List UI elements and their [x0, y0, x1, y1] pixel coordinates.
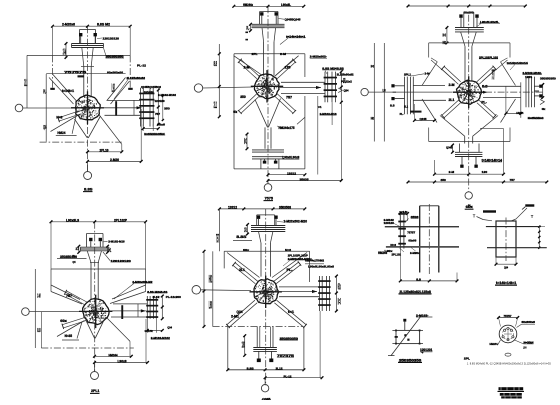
node JD5 upper-right leader text — [288, 259, 312, 261]
detail A column flanges — [419, 206, 421, 273]
svg-text:120120: 120120 — [155, 99, 165, 103]
node JD2 anchor bolts — [260, 12, 263, 15]
svg-text:HM244x: HM244x — [243, 3, 253, 7]
svg-text:N=35: N=35 — [65, 334, 73, 338]
svg-text:N=35kNN=3: N=35kNN=3 — [528, 116, 544, 120]
node JD5 top dimension line — [219, 208, 304, 210]
node JD5 bottom flange plates — [253, 347, 277, 349]
node JD4 left dim line — [34, 269, 36, 348]
svg-text:60x: 60x — [60, 319, 67, 323]
node JD1 vertical centerline — [87, 26, 89, 171]
node JD1 axis circle left — [15, 104, 23, 112]
node JD1 bottom dim 1 — [88, 151, 122, 153]
node JD1 end plates — [140, 88, 142, 127]
node JD4 flange plates — [80, 246, 109, 248]
svg-text:757575: 757575 — [277, 354, 294, 358]
svg-text:HM244: HM244 — [490, 342, 498, 346]
node JD5 gusset taper right — [272, 253, 307, 278]
detail B right dim — [538, 227, 540, 248]
svg-text:350350350: 350350350 — [540, 76, 556, 80]
svg-text:2L1: 2L1 — [24, 78, 27, 89]
node JD4 anchor bolt right — [99, 238, 102, 241]
node JD5 bottom axis circle — [261, 385, 268, 392]
node JD3 reentrant TR — [501, 62, 516, 86]
node JD3 left member — [413, 84, 445, 86]
node JD3 right bolt dim — [542, 85, 544, 98]
node JD2 hub — [254, 74, 279, 99]
node JD5 shoulder dashdot — [213, 326, 304, 328]
svg-text:3503: 3503 — [411, 215, 419, 219]
svg-text:2-M: 2-M — [37, 293, 40, 299]
node JD3 bottom dim 2 — [408, 181, 547, 183]
node JD3 bottom leader text — [482, 161, 502, 163]
node JD3 horizontal axis — [368, 91, 452, 93]
node JD5 column taper — [259, 232, 262, 244]
svg-text:Q345: Q345 — [446, 146, 453, 150]
svg-text:8.8S M248.8S: 8.8S M248.8S — [147, 290, 167, 294]
svg-text:Q345BQ345: Q345BQ345 — [285, 18, 301, 22]
svg-text:757575: 757575 — [64, 71, 86, 75]
svg-text:L90: L90 — [209, 300, 212, 312]
node JD5 right plate bolts — [318, 280, 330, 282]
detail C top leader — [416, 316, 432, 318]
detail B bottom dim — [495, 257, 497, 264]
node JD4 right member weld bar — [121, 305, 123, 319]
node JD1 anchor bolt left — [79, 33, 82, 36]
node JD3 bottom narrow column — [464, 136, 466, 143]
node JD5 right member centerline — [278, 291, 317, 293]
node JD3 bottom flange dim left — [452, 145, 454, 152]
svg-text:2-M162-M16: 2-M162-M16 — [108, 240, 125, 244]
svg-text:HM2: HM2 — [371, 116, 374, 121]
svg-text:N=3: N=3 — [244, 137, 247, 146]
node JD5 hub — [254, 279, 279, 304]
svg-text:HM244: HM244 — [109, 353, 118, 357]
node JD4 lower column — [90, 263, 92, 301]
detail C corner welds — [395, 330, 397, 332]
svg-text:t=14t=: t=14t= — [144, 90, 154, 94]
node JD5 flange plates — [251, 225, 285, 227]
svg-text:PL-: PL- — [43, 90, 46, 96]
node JD4 SW long diagonal — [57, 321, 85, 337]
detail D center marks — [504, 333, 512, 335]
svg-text:120120120: 120120120 — [103, 37, 120, 41]
node JD2 axis circle left — [194, 84, 202, 92]
svg-text:L90x8L: L90x8L — [281, 3, 291, 7]
node JD4 bottom axis circle — [91, 372, 99, 380]
node JD3 top dimension line — [408, 5, 525, 7]
node JD4 vertical centerline — [94, 222, 96, 372]
svg-text:2L1: 2L1 — [76, 246, 79, 251]
node JD4 right member — [113, 303, 147, 305]
node JD3 left member plates — [404, 77, 406, 115]
node JD5 brace lower-left — [227, 300, 255, 325]
node JD1 plate bolts — [139, 93, 154, 95]
svg-text:2PL: 2PL — [252, 52, 258, 56]
node JD2 outline chamfer — [297, 117, 305, 124]
node JD4 plate dim right — [161, 296, 163, 319]
svg-text:35035: 35035 — [300, 177, 309, 181]
svg-text:2-M: 2-M — [425, 72, 430, 76]
detail B column rect — [496, 221, 516, 257]
node JD1 plate dim right — [157, 90, 159, 124]
svg-text:8.8S: 8.8S — [84, 187, 93, 191]
node JD4 left leader text — [57, 257, 87, 259]
svg-text:60x: 60x — [243, 248, 249, 252]
node JD1 V right — [88, 116, 100, 138]
node JD1 anchor bolt right — [94, 33, 97, 36]
svg-text:8.8: 8.8 — [390, 103, 395, 107]
node JD1 brace lower-left — [58, 111, 79, 118]
svg-text:120120: 120120 — [384, 221, 395, 225]
svg-text:2PL1: 2PL1 — [404, 73, 411, 77]
node JD5 right end plates — [318, 276, 320, 311]
node JD1 left dim line x=46 — [45, 74, 47, 141]
svg-text:757: 757 — [66, 294, 72, 298]
detail B weld flag right — [525, 204, 534, 206]
detail D pipe circle — [499, 325, 517, 343]
svg-text:2PL: 2PL — [244, 227, 247, 234]
node JD2 bottom column — [264, 127, 266, 148]
node JD1 lower column — [83, 67, 85, 97]
svg-text:75757: 75757 — [504, 314, 512, 318]
node JD3 right arm lower dim — [506, 112, 521, 114]
node JD2 top leader texts — [279, 18, 285, 21]
node JD5 axis circle left — [192, 286, 201, 295]
title block line1 — [499, 387, 524, 390]
svg-text:Q34: Q34 — [167, 326, 172, 330]
svg-text:2-M162-M162: 2-M162-M162 — [151, 336, 170, 340]
svg-text:2-M162-M162: 2-M162-M162 — [158, 93, 176, 97]
node JD3 bottom dim 1 — [435, 173, 504, 175]
svg-text:1201: 1201 — [525, 75, 532, 79]
svg-text:2-M: 2-M — [280, 52, 286, 56]
node JD2 right plate bolts — [324, 77, 337, 79]
svg-text:60x: 60x — [338, 282, 341, 292]
node JD1 right member weld bar — [115, 101, 117, 116]
svg-text:2L125x80x82: 2L125x80x82 — [337, 73, 354, 77]
node JD4 column taper — [87, 251, 91, 263]
svg-text:PL-: PL- — [246, 26, 249, 32]
node JD4 outline corners — [50, 269, 52, 292]
node JD5 vertical centerline — [265, 209, 267, 386]
svg-text:t=14t=1: t=14t=1 — [62, 89, 74, 93]
node JD2 vertical centerline — [267, 6, 269, 183]
node JD1 top column — [80, 29, 96, 31]
svg-text:PL-12x2: PL-12x2 — [341, 80, 352, 84]
svg-text:2PL102: 2PL102 — [392, 252, 402, 256]
node JD5 right member — [279, 286, 319, 288]
svg-text:N=3: N=3 — [390, 243, 396, 247]
node JD2 left dim line — [218, 44, 220, 117]
node JD4 bottom dashdot line — [41, 347, 134, 349]
svg-text:120120120: 120120120 — [111, 259, 132, 263]
detail C inner bolts — [404, 334, 406, 336]
svg-text:PL-: PL- — [287, 268, 293, 272]
svg-text:2-M20x6: 2-M20x6 — [62, 22, 75, 26]
svg-text:60x660x66: 60x660x66 — [107, 70, 123, 74]
node JD3 bottom flange plates — [455, 151, 482, 153]
detail C top/bottom extensions — [392, 329, 396, 331]
node JD4 bottom dim 2 — [95, 362, 148, 364]
node JD1 gusset diagonal left — [53, 75, 77, 102]
detail A beam line 1 — [385, 226, 459, 228]
node JD4 horizontal axis — [29, 311, 82, 313]
node JD1 left outline/dim x=27 — [26, 55, 28, 108]
node JD5 bottom dim 2 — [265, 377, 322, 379]
node JD2 gusset taper right — [276, 56, 299, 76]
node JD5 outline top — [224, 250, 309, 252]
node JD1 horizontal axis — [23, 107, 75, 109]
svg-text:350350350: 350350350 — [60, 255, 77, 259]
svg-text:Q34: Q34 — [43, 125, 47, 131]
svg-text:t=14t=14t=14: t=14t=14t=14 — [482, 159, 503, 163]
node JD5 bottom box edge dim — [228, 369, 304, 371]
svg-text:PL-12: PL-12 — [137, 64, 146, 68]
detail D ellipse mark — [505, 353, 511, 356]
node JD4 right member centerline+arrow — [109, 310, 146, 312]
node JD3 right member — [483, 85, 521, 87]
node JD3 reentrant BL — [422, 99, 437, 123]
svg-text:HM244x175: HM244x175 — [279, 126, 295, 130]
svg-text:2-M20x: 2-M20x — [410, 251, 420, 255]
svg-text:2-M: 2-M — [244, 66, 250, 70]
node JD1 right ext to bottom dim — [140, 109, 142, 161]
detail D bolts — [507, 327, 509, 329]
node JD2 bottom bolts — [263, 161, 267, 164]
svg-text:350350350: 350350350 — [280, 337, 299, 341]
detail C box — [396, 330, 420, 343]
node JD1 bottom dim 2 — [88, 160, 142, 162]
node JD3 taper leader text — [479, 58, 498, 60]
svg-text:2L1: 2L1 — [449, 98, 455, 102]
node JD2 bottom axis circle — [264, 184, 272, 192]
svg-text:L90x8L90x8L90x8: L90x8L90x8L90x8 — [308, 265, 334, 269]
svg-text:60x66: 60x66 — [408, 239, 416, 243]
svg-text:60x: 60x — [233, 110, 237, 114]
node JD2 gusset taper left — [234, 56, 263, 76]
svg-text:L90x8L90x8: L90x8L90x8 — [282, 156, 299, 160]
detail C diagonal — [391, 315, 422, 355]
svg-text:2-M: 2-M — [63, 48, 66, 57]
node JD3 BR gusset step — [480, 127, 503, 129]
svg-text:HM2: HM2 — [443, 40, 446, 45]
detail D leader right top — [517, 324, 522, 327]
svg-text:PL-: PL- — [481, 100, 487, 104]
svg-text:350: 350 — [240, 95, 246, 99]
node JD4 top column — [87, 233, 104, 235]
node JD5 gusset taper left — [227, 253, 260, 278]
node JD4 brace lower-left — [62, 317, 86, 325]
node JD1 top dimension line — [53, 25, 131, 27]
node JD3 reentrant TL — [422, 62, 437, 86]
title block line3 — [501, 396, 522, 398]
node JD2 bottom dim 2 — [268, 180, 341, 182]
svg-text:60x660x6: 60x660x6 — [522, 320, 536, 324]
node JD3 right plates — [525, 77, 527, 108]
svg-text:HM24: HM24 — [516, 111, 523, 115]
svg-text:L90x8L90x8L: L90x8L90x8L — [480, 20, 499, 24]
node JD4 plate bolts — [146, 299, 158, 301]
svg-text:t=1: t=1 — [288, 310, 294, 314]
node JD5 left leader text — [233, 240, 252, 242]
svg-text:8.8S: 8.8S — [247, 367, 254, 371]
svg-text:7575: 7575 — [265, 196, 274, 200]
svg-text:12012: 12012 — [228, 206, 237, 210]
svg-text:120: 120 — [285, 66, 291, 70]
node JD5 bottom dim left — [244, 336, 246, 356]
svg-text:t=14t=14t=14: t=14t=14t=14 — [507, 61, 528, 65]
node JD3 vertical centerline — [468, 15, 470, 192]
node JD2 outline rect — [234, 53, 305, 55]
node JD3 reentrant BR — [501, 99, 516, 123]
node JD3 right bolts — [539, 85, 542, 88]
svg-text:12012: 12012 — [287, 171, 296, 175]
node JD2 top column — [260, 11, 278, 13]
detail B centerline — [505, 218, 507, 262]
svg-text:N=3: N=3 — [285, 248, 291, 252]
node JD4 flange left small dim — [78, 246, 80, 252]
node JD1 flange left small dim — [65, 44, 67, 58]
svg-text:120: 120 — [242, 341, 245, 350]
node JD3 axis circle left — [361, 88, 368, 95]
svg-text:t=14t: t=14t — [399, 210, 407, 214]
node JD2 brace lower-left — [239, 94, 257, 111]
svg-text:350: 350 — [164, 106, 170, 110]
svg-text:Q345: Q345 — [420, 117, 427, 121]
node JD4 right ext to bottom dim — [145, 319, 147, 363]
svg-text:PL-12: PL-12 — [284, 374, 292, 378]
node JD4 hub — [83, 299, 110, 325]
node JD1 leader text flange — [104, 48, 107, 56]
node JD3 gusset diag to hub TL — [431, 60, 455, 81]
svg-text:2-M20x602-M2: 2-M20x602-M2 — [132, 280, 152, 284]
node JD5 bottom box — [227, 327, 229, 370]
svg-text:2PL102P: 2PL102P — [114, 218, 128, 222]
svg-text:L90: L90 — [383, 88, 387, 93]
svg-text:2-M: 2-M — [449, 170, 455, 174]
svg-text:757: 757 — [155, 112, 160, 116]
svg-text:N=3: N=3 — [338, 297, 341, 307]
detail B beam line 2 — [487, 247, 547, 249]
detail B beam line 1 — [486, 226, 541, 228]
node JD4 flange right bracket — [107, 246, 109, 252]
svg-text:2L12: 2L12 — [153, 295, 160, 299]
node JD3 top leader text — [479, 22, 500, 24]
node JD1 left leader text — [46, 72, 125, 74]
svg-text:2-M20x602-M20x: 2-M20x602-M20x — [288, 257, 312, 261]
svg-text:L90x8L9: L90x8L9 — [66, 218, 79, 222]
node JD2 brace upper-left — [241, 60, 259, 77]
svg-text:L90: L90 — [112, 81, 115, 95]
svg-text:2L1: 2L1 — [404, 104, 408, 108]
node JD3 top taper — [461, 32, 465, 46]
node JD4 end plates — [146, 296, 148, 319]
node JD3 left bolts — [391, 84, 394, 87]
node JD1 right member centerline+arrow — [101, 107, 142, 109]
node JD3 right verticals — [505, 86, 507, 113]
detail A plate bolts — [398, 213, 406, 215]
detail B weld bar left — [483, 210, 496, 212]
svg-text:2-M20x602-M20: 2-M20x602-M20 — [284, 220, 308, 224]
svg-text:L90x8: L90x8 — [118, 360, 127, 364]
node JD4 plate bottom ext — [146, 319, 148, 333]
node JD1 column taper — [82, 48, 84, 67]
node JD4 lower-right diagonal — [106, 317, 130, 341]
node JD3 V bottom — [440, 116, 465, 137]
node JD2 top dimension line — [234, 5, 304, 7]
svg-text:2-M20: 2-M20 — [110, 158, 119, 162]
svg-text:t=14t=14t=1: t=14t=14t=1 — [286, 35, 306, 39]
svg-text:Q34: Q34 — [504, 265, 508, 269]
detail A bottom dim — [399, 247, 401, 281]
node JD3 brace UR — [479, 69, 496, 84]
detail A column cap — [420, 205, 439, 207]
node JD4 leader text flange — [103, 252, 110, 261]
node JD2 bottom leader texts — [277, 126, 282, 128]
node JD3 top anchor bolts — [459, 14, 462, 17]
node JD3 left arm lower dim — [415, 119, 435, 121]
detail C left tick — [395, 336, 398, 338]
node JD1 V left — [75, 119, 88, 138]
node JD1 lower-right diagonal — [99, 114, 122, 144]
svg-text:t=1: t=1 — [318, 105, 322, 109]
detail C bottom leader — [420, 351, 432, 353]
svg-text:HM24: HM24 — [57, 131, 65, 135]
svg-text:Q345BQ345BQ3: Q345BQ345BQ3 — [141, 85, 161, 89]
detail D bolt circle dashed — [502, 328, 513, 339]
svg-text:2L1: 2L1 — [239, 268, 245, 272]
node JD2 column taper — [262, 28, 264, 42]
detail A weld flag text — [411, 217, 419, 219]
svg-text:2PL1: 2PL1 — [91, 389, 100, 393]
node JD5 top column — [257, 214, 275, 216]
node JD2 bottom flange plates — [252, 149, 284, 151]
node JD4 axis circle left — [22, 308, 30, 316]
svg-text:8.8S M2: 8.8S M2 — [97, 22, 110, 26]
node JD4 left dim line 2 — [40, 312, 42, 348]
node JD4 right member texts — [132, 282, 152, 284]
svg-text:3503503: 3503503 — [279, 206, 291, 210]
node JD2 right end plates — [324, 72, 326, 103]
node JD3 top flange plates — [455, 27, 484, 29]
node JD1 gusset diagonal right — [107, 78, 126, 101]
svg-text:2L125x80x82: 2L125x80x82 — [127, 76, 146, 80]
svg-text:N=3: N=3 — [371, 64, 375, 69]
node JD5 right ext lines — [319, 311, 321, 378]
node JD3 top narrow column — [464, 46, 466, 81]
svg-text:757: 757 — [510, 178, 516, 182]
node JD5 brace lower-right — [274, 303, 304, 328]
svg-text:2PL: 2PL — [464, 357, 470, 361]
node JD4 gusset diagonal left — [51, 292, 82, 305]
svg-text:N=35kN: N=35kN — [524, 341, 534, 345]
detail A beam line 2 — [386, 246, 459, 248]
svg-text:PL-12x200: PL-12x200 — [166, 295, 181, 299]
svg-text:Q34: Q34 — [344, 89, 349, 93]
svg-text:2PL102PL102: 2PL102PL102 — [479, 55, 498, 59]
node JD3 bottom axis circle — [465, 192, 472, 199]
node JD1 SW long diagonal — [51, 116, 78, 132]
svg-text:60x: 60x — [542, 107, 546, 111]
node JD5 left dim line — [203, 251, 205, 326]
title underline — [498, 390, 525, 392]
svg-text:8.8: 8.8 — [37, 328, 40, 334]
detail D leader right bottom — [515, 340, 524, 344]
node JD5 horizontal axis — [201, 289, 251, 292]
node JD5 bottom column — [256, 327, 258, 348]
svg-text:2-M162-M16: 2-M162-M16 — [320, 112, 337, 116]
